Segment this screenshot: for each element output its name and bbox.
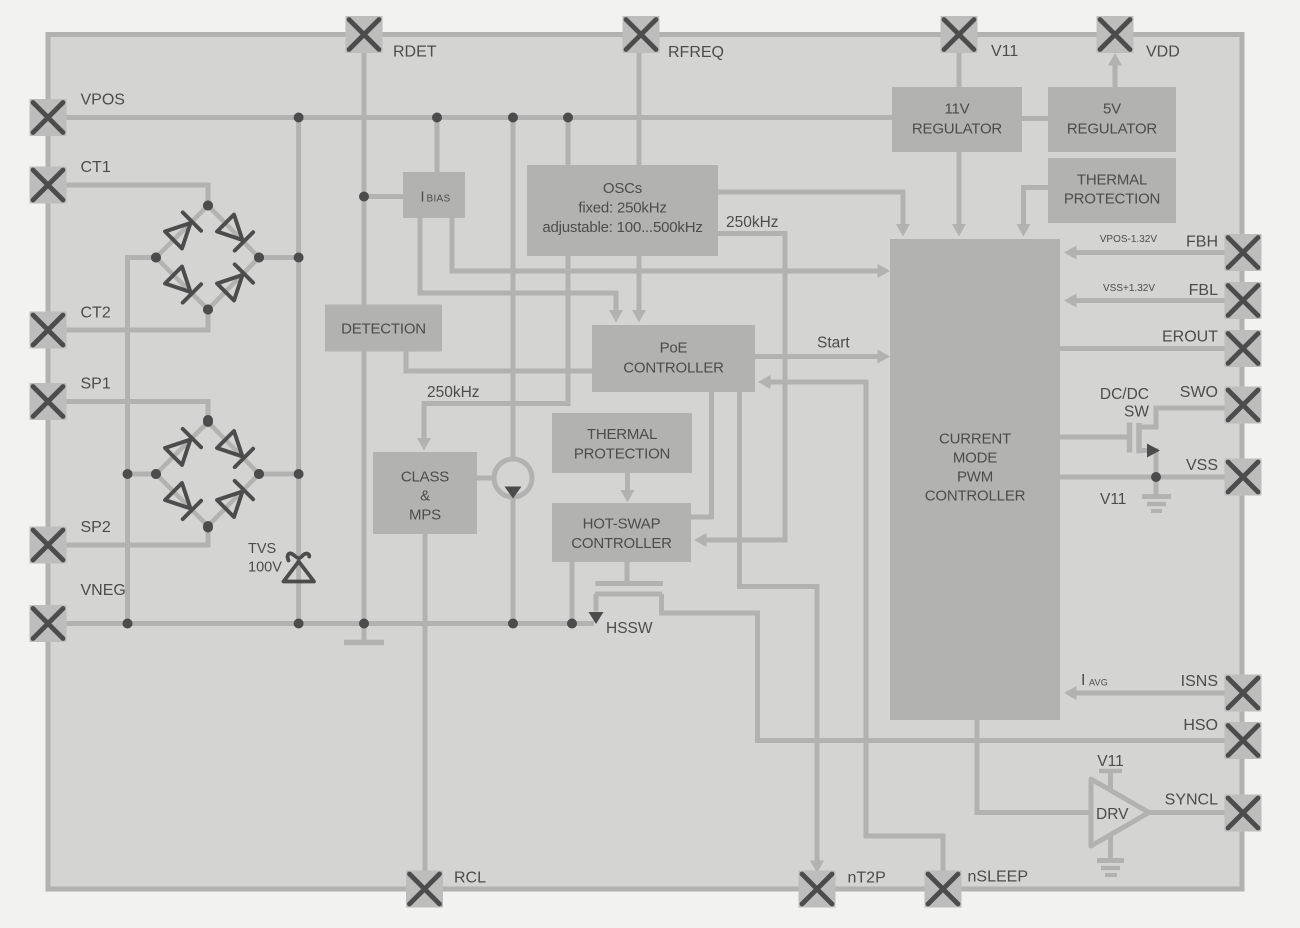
svg-text:RDET: RDET xyxy=(393,44,437,61)
svg-text:VPOS: VPOS xyxy=(81,92,125,109)
svg-text:THERMAL: THERMAL xyxy=(1077,171,1147,188)
svg-text:MPS: MPS xyxy=(409,506,441,523)
svg-text:MODE: MODE xyxy=(953,449,997,466)
svg-text:FBL: FBL xyxy=(1189,282,1218,299)
svg-text:CURRENT: CURRENT xyxy=(939,430,1011,447)
svg-text:CONTROLLER: CONTROLLER xyxy=(925,487,1026,504)
svg-text:RFREQ: RFREQ xyxy=(668,44,724,61)
svg-text:250kHz: 250kHz xyxy=(726,214,779,231)
svg-text:PWM: PWM xyxy=(957,468,993,485)
svg-text:ISNS: ISNS xyxy=(1181,673,1218,690)
svg-text:THERMAL: THERMAL xyxy=(587,426,657,443)
svg-text:fixed: 250kHz: fixed: 250kHz xyxy=(578,200,666,217)
svg-text:CT2: CT2 xyxy=(81,305,111,322)
svg-text:REGULATOR: REGULATOR xyxy=(912,120,1003,137)
svg-text:OSCs: OSCs xyxy=(603,180,642,197)
svg-text:CONTROLLER: CONTROLLER xyxy=(623,359,724,376)
svg-text:DC/DC: DC/DC xyxy=(1100,386,1149,403)
svg-text:250kHz: 250kHz xyxy=(427,384,480,401)
svg-text:I: I xyxy=(420,189,424,205)
svg-text:V11: V11 xyxy=(1097,753,1123,770)
svg-text:nT2P: nT2P xyxy=(848,870,886,887)
svg-text:I: I xyxy=(1081,672,1085,689)
svg-text:VPOS-1.32V: VPOS-1.32V xyxy=(1100,234,1158,245)
svg-text:5V: 5V xyxy=(1103,100,1121,117)
svg-text:HOT-SWAP: HOT-SWAP xyxy=(583,516,661,533)
svg-text:100V: 100V xyxy=(248,560,282,576)
svg-text:PROTECTION: PROTECTION xyxy=(574,445,670,462)
svg-text:SW: SW xyxy=(1124,404,1149,421)
svg-text:VSS+1.32V: VSS+1.32V xyxy=(1103,283,1155,294)
svg-text:V11: V11 xyxy=(1100,491,1126,508)
svg-text:DETECTION: DETECTION xyxy=(341,320,426,337)
svg-text:Start: Start xyxy=(817,335,850,352)
svg-text:CONTROLLER: CONTROLLER xyxy=(571,535,672,552)
svg-text:EROUT: EROUT xyxy=(1162,329,1218,346)
svg-text:AVG: AVG xyxy=(1089,678,1108,688)
svg-text:VDD: VDD xyxy=(1146,44,1180,61)
svg-text:HSSW: HSSW xyxy=(606,620,653,637)
svg-text:11V: 11V xyxy=(945,100,970,117)
svg-text:DRV: DRV xyxy=(1096,806,1129,823)
svg-text:VSS: VSS xyxy=(1186,457,1218,474)
svg-text:V11: V11 xyxy=(991,43,1018,60)
svg-text:HSO: HSO xyxy=(1183,717,1218,734)
svg-text:&: & xyxy=(420,487,430,504)
svg-text:adjustable: 100...500kHz: adjustable: 100...500kHz xyxy=(542,219,702,236)
svg-text:PROTECTION: PROTECTION xyxy=(1064,191,1160,208)
svg-text:SWO: SWO xyxy=(1180,384,1218,401)
svg-text:REGULATOR: REGULATOR xyxy=(1067,120,1158,137)
svg-text:FBH: FBH xyxy=(1186,234,1218,251)
svg-text:CLASS: CLASS xyxy=(401,468,449,485)
svg-text:nSLEEP: nSLEEP xyxy=(968,869,1028,886)
svg-text:SP1: SP1 xyxy=(81,376,111,393)
svg-text:TVS: TVS xyxy=(248,541,276,557)
svg-text:CT1: CT1 xyxy=(81,159,111,176)
svg-text:RCL: RCL xyxy=(454,870,486,887)
svg-text:VNEG: VNEG xyxy=(81,582,126,599)
svg-text:SYNCL: SYNCL xyxy=(1165,792,1218,809)
svg-text:SP2: SP2 xyxy=(81,519,111,536)
svg-text:BIAS: BIAS xyxy=(427,193,451,204)
svg-text:PoE: PoE xyxy=(660,339,688,356)
